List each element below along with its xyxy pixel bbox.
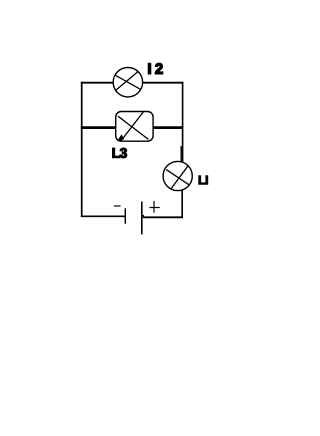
minus sign (114, 205, 121, 207)
lamp I2 (113, 68, 142, 97)
lamp L1 (163, 161, 192, 190)
label L3 (113, 148, 127, 158)
battery plate - (short) (124, 208, 126, 224)
wire: right vertical upper (182, 82, 184, 162)
wire: middle right thick (153, 126, 184, 129)
wire: right vertical lower (181, 190, 183, 218)
label I2 (148, 63, 162, 74)
wire: bottom right jog (142, 215, 144, 218)
wire: left vertical (81, 82, 83, 217)
plus sign (150, 207, 160, 209)
wire: top left segment (81, 82, 114, 84)
lamp L3 (116, 112, 153, 142)
wire: middle left thick (81, 126, 116, 129)
battery plate + (long) (141, 202, 143, 235)
wire: bottom left (81, 215, 125, 217)
label L1 (199, 176, 208, 185)
wire: bottom right (143, 216, 183, 218)
wire: top right segment (143, 82, 184, 84)
wire: right vertical doubled segment (180, 146, 182, 162)
